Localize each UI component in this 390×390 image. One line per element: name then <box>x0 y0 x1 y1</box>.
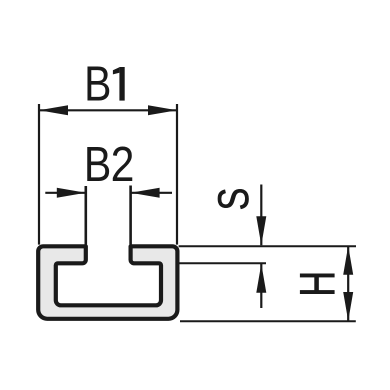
dimension B2 line right <box>131 192 172 194</box>
dimension B1 extension line left <box>38 104 40 245</box>
extension line top (profile top, for S and H) <box>179 245 356 247</box>
dimension H arrow up <box>343 246 353 275</box>
extension line bottom (profile bottom, for H) <box>180 320 356 322</box>
extension line middle (slot ceiling, for S) <box>179 262 266 264</box>
svg-text:B: B <box>84 56 111 111</box>
dimension B1 line <box>39 109 177 111</box>
dimension B1 extension line right <box>176 104 178 245</box>
dimension S arrow up <box>256 264 266 293</box>
profile cross-section (C-channel) <box>38 246 177 318</box>
svg-text:2: 2 <box>111 136 135 191</box>
dimension H arrow down <box>343 292 353 321</box>
label B1 letter B <box>84 56 111 111</box>
dimension S leader lower <box>260 264 262 308</box>
dimension S leader upper <box>260 185 262 246</box>
dimension B2 extension line right <box>129 186 132 245</box>
svg-text:H: H <box>290 271 345 297</box>
dimension B1 arrow left <box>39 105 68 115</box>
dimension S arrow down <box>256 216 266 245</box>
label B1 digit 1 <box>113 67 125 101</box>
dimension B2 arrow left <box>57 188 86 198</box>
label B2 digit 2 <box>111 136 135 191</box>
label B2 letter B <box>84 137 111 192</box>
dimension H line <box>347 246 349 321</box>
dimension B2 arrow right <box>131 188 160 198</box>
label H <box>290 271 345 297</box>
svg-text:B: B <box>84 137 111 192</box>
dimension B2 extension line left <box>85 186 88 245</box>
dimension B2 line left <box>45 192 86 194</box>
svg-text:S: S <box>210 188 257 211</box>
dimension B1 arrow right <box>148 105 177 115</box>
label S <box>210 188 257 211</box>
